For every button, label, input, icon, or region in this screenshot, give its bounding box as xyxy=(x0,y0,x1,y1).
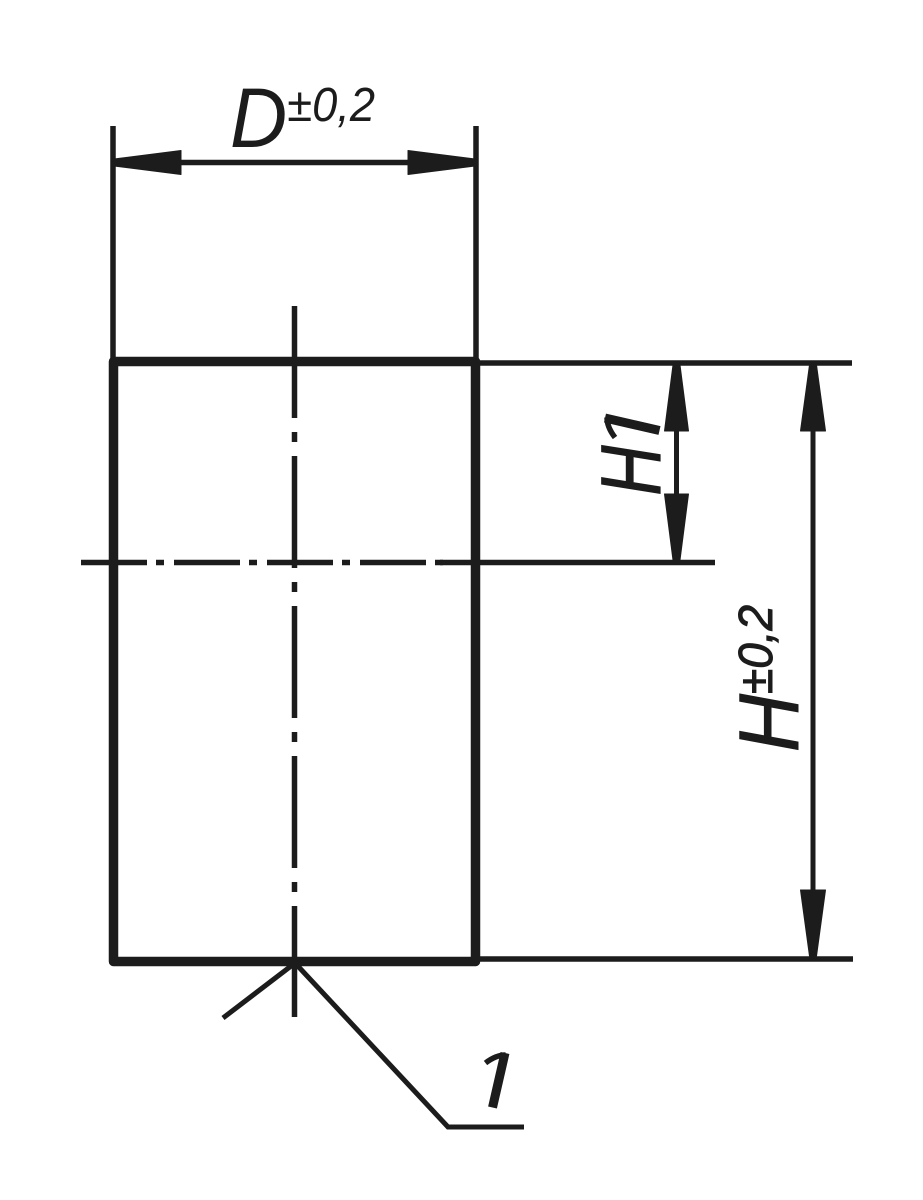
dimension line H1 xyxy=(674,364,679,561)
leader line to label 1 xyxy=(295,963,524,1127)
arrowhead H up xyxy=(801,365,826,431)
dimension line D xyxy=(113,160,476,166)
arrowhead H1 down xyxy=(665,494,689,560)
svg-text:H: H xyxy=(584,445,678,495)
vertical centerline (dash-dot) xyxy=(292,306,298,1017)
extension line middle (H1 bottom, solid part right of outline) xyxy=(440,560,715,566)
label 1 (leader) xyxy=(486,1053,506,1108)
arrowhead D left xyxy=(114,151,181,175)
svg-text:D±0,2: D±0,2 xyxy=(230,71,375,165)
horizontal centerline (dash-dot) xyxy=(81,560,445,566)
extension line left (dimension D) xyxy=(110,126,116,362)
svg-text:H±0,2: H±0,2 xyxy=(722,605,816,752)
extension line bottom (H) xyxy=(480,956,853,962)
extension line right (dimension D) xyxy=(473,126,479,362)
arrowhead D right xyxy=(408,151,475,175)
arrowhead H down xyxy=(801,890,826,956)
part outline (cylinder side view) xyxy=(114,362,476,962)
surface mark diagonal left xyxy=(223,963,295,1018)
arrowhead H1 up xyxy=(665,365,689,431)
extension line top (H / H1) xyxy=(480,360,852,366)
digit 1 of H1 (custom glyph, rotated) xyxy=(605,418,660,438)
dimension line H xyxy=(811,364,816,957)
